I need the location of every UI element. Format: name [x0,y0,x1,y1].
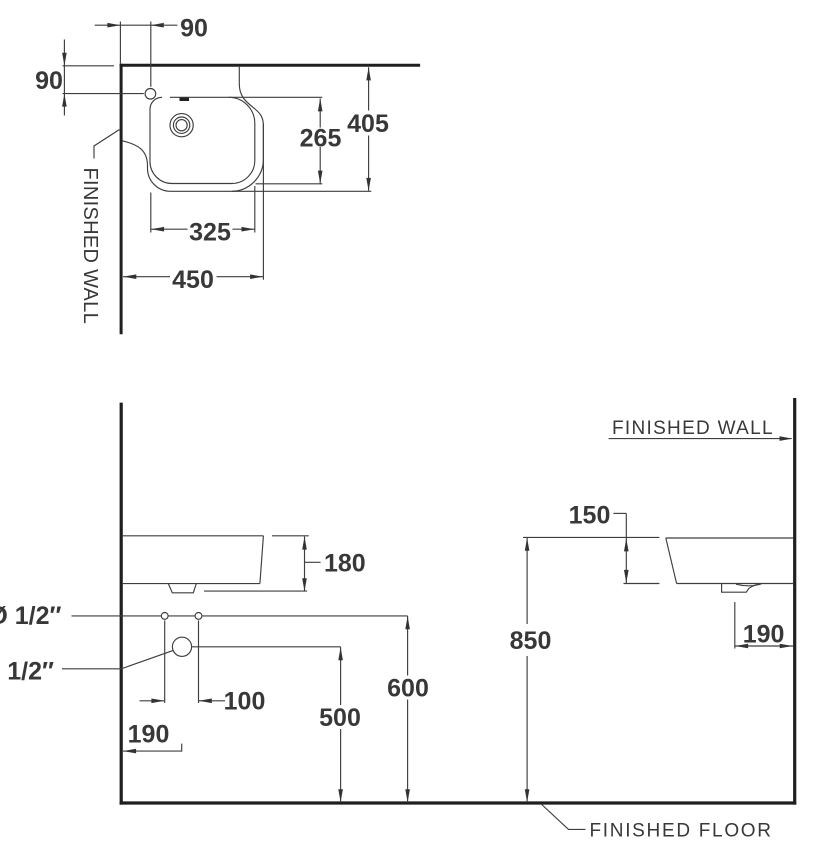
svg-text:FINISHED WALL: FINISHED WALL [79,168,101,325]
svg-text:190: 190 [128,721,170,749]
svg-text:1 1/2″: 1 1/2″ [0,657,54,685]
svg-text:90: 90 [35,67,63,95]
svg-text:600: 600 [387,675,429,703]
svg-text:FINISHED FLOOR: FINISHED FLOOR [590,821,773,842]
svg-text:Ø 1/2″: Ø 1/2″ [0,602,62,630]
svg-text:325: 325 [189,218,231,246]
svg-text:90: 90 [180,15,208,43]
svg-text:500: 500 [319,704,361,732]
svg-text:190: 190 [743,620,785,648]
svg-text:180: 180 [324,549,366,577]
svg-text:100: 100 [224,688,266,716]
svg-text:FINISHED WALL: FINISHED WALL [612,418,774,439]
svg-text:850: 850 [510,627,552,655]
svg-text:450: 450 [172,266,214,294]
svg-text:405: 405 [347,110,389,138]
svg-text:265: 265 [300,124,342,152]
svg-text:150: 150 [569,502,611,530]
